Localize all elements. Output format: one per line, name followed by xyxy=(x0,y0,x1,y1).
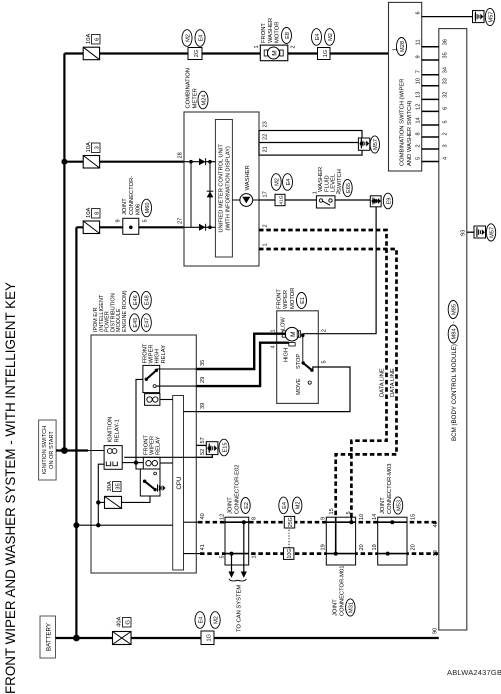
svg-text:3: 3 xyxy=(443,144,449,147)
node ign contact feed xyxy=(96,500,100,504)
wire high relay common xyxy=(136,379,143,469)
wire pin 39 internal xyxy=(184,411,197,413)
label IPDM E/R xyxy=(93,290,128,332)
svg-text:WASHER: WASHER xyxy=(245,165,251,190)
svg-text:8: 8 xyxy=(416,132,422,135)
svg-text:M2: M2 xyxy=(296,502,302,510)
joint connector M06 xyxy=(116,218,149,234)
svg-text:39: 39 xyxy=(200,403,206,409)
svg-text:E65: E65 xyxy=(346,183,352,193)
connector oval M24 xyxy=(198,91,208,109)
box CPU xyxy=(173,396,184,571)
svg-text:RELAY: RELAY xyxy=(156,436,162,455)
svg-text:36: 36 xyxy=(443,39,449,45)
svg-text:35: 35 xyxy=(200,360,206,366)
svg-text:11: 11 xyxy=(416,39,422,45)
BCM pin 40/39 labels xyxy=(433,521,439,556)
svg-text:1: 1 xyxy=(271,329,277,332)
svg-text:FLUID: FLUID xyxy=(324,175,330,192)
connector oval M2 (2G) xyxy=(182,30,192,47)
dashed CAN bus H xyxy=(198,521,439,524)
svg-text:4: 4 xyxy=(443,157,449,160)
svg-text:41G: 41G xyxy=(278,195,284,204)
wire ignition relay contact feed xyxy=(98,464,104,502)
svg-text:14: 14 xyxy=(372,514,378,520)
svg-text:E2: E2 xyxy=(244,502,250,509)
svg-text:COMBINATION SWITCH (WIPER: COMBINATION SWITCH (WIPER xyxy=(399,79,405,167)
ground E15 connector xyxy=(196,442,218,458)
wire IPDM 39 to motor pin5 xyxy=(196,367,350,412)
svg-text:20: 20 xyxy=(411,544,417,550)
watermark code xyxy=(447,668,501,677)
svg-text:40: 40 xyxy=(200,513,206,519)
svg-text:8: 8 xyxy=(95,212,101,215)
svg-text:IGNITION SWITCH: IGNITION SWITCH xyxy=(42,426,48,474)
joint connector M03 box xyxy=(378,517,407,565)
svg-text:M57: M57 xyxy=(489,227,495,238)
wire high coil to CPU xyxy=(160,399,173,401)
wire IPDM battery drop xyxy=(76,524,172,526)
svg-text:MOTOR: MOTOR xyxy=(275,22,281,43)
svg-text:33: 33 xyxy=(443,78,449,84)
svg-text:METER: METER xyxy=(192,88,198,108)
wire IPDM 29 to motor pin4 (HIGH) xyxy=(196,343,288,386)
dashed CAN meter pin2 drop xyxy=(259,230,387,517)
motor auto stop switch xyxy=(296,331,314,395)
svg-text:21: 21 xyxy=(263,146,269,152)
wire BCM pin93 ground xyxy=(467,231,475,233)
svg-text:E8: E8 xyxy=(285,32,291,39)
washer indicator symbol xyxy=(232,165,259,206)
svg-text:52: 52 xyxy=(200,449,206,455)
pin labels E02 xyxy=(220,514,258,559)
connector 10G on CAN L xyxy=(284,548,294,560)
BCM top pin labels xyxy=(443,39,449,160)
connector oval E8 xyxy=(282,28,292,44)
wire pin 41 internal xyxy=(184,553,201,555)
svg-text:9: 9 xyxy=(416,55,422,58)
connector oval E46 xyxy=(130,291,140,309)
svg-text:E4: E4 xyxy=(282,502,288,509)
label front wiper relay xyxy=(143,435,161,455)
ground M57 connector (combo) xyxy=(473,11,485,23)
label front wiper high relay xyxy=(143,343,167,363)
svg-text:12: 12 xyxy=(220,514,226,520)
front wiper motor box xyxy=(277,311,319,404)
connector 25G on CAN H xyxy=(284,516,294,528)
svg-text:CPU: CPU xyxy=(176,476,183,489)
wire coil ground to pin 52 xyxy=(124,456,196,458)
svg-text:1: 1 xyxy=(393,48,399,51)
connector oval M2 (CAN) xyxy=(293,497,302,514)
svg-text:E9: E9 xyxy=(386,198,392,205)
svg-text:BCM (BODY CONTROL MODULE): BCM (BODY CONTROL MODULE) xyxy=(451,344,458,441)
fuse 10A 3 xyxy=(64,142,184,168)
svg-text:10: 10 xyxy=(359,514,365,520)
svg-text:M85: M85 xyxy=(452,304,458,315)
svg-text:WASHER: WASHER xyxy=(268,18,274,43)
connector oval E4 (1G batt) xyxy=(195,612,205,629)
svg-text:5: 5 xyxy=(220,555,226,558)
ignition switch box xyxy=(39,420,57,480)
wire IPDM 35 to motor pin1 (LOW) xyxy=(196,334,285,369)
svg-text:CONNECTOR-M01: CONNECTOR-M01 xyxy=(339,566,345,616)
node wiper coil feed xyxy=(134,460,138,464)
svg-text:35: 35 xyxy=(116,483,122,489)
node E9 motor junction xyxy=(374,199,378,203)
node battery junction xyxy=(73,635,80,642)
svg-text:39: 39 xyxy=(433,550,439,556)
relay IGNITION RELAY-1 xyxy=(104,446,122,470)
svg-text:M31: M31 xyxy=(349,602,355,613)
wire combo pin6 ground xyxy=(422,16,474,18)
label combination meter xyxy=(186,68,199,108)
svg-text:32: 32 xyxy=(443,92,449,98)
wire 30A feed xyxy=(98,502,104,525)
pin labels M03 xyxy=(372,514,417,551)
svg-text:HIGH: HIGH xyxy=(155,349,161,364)
relay FRONT WIPER HIGH RELAY xyxy=(143,365,160,405)
svg-text:25G: 25G xyxy=(288,517,294,527)
svg-text:E48: E48 xyxy=(145,295,151,305)
fuse 10A 6 xyxy=(64,34,388,60)
connector oval M28 xyxy=(397,38,407,56)
connector oval E4 (1G washer) xyxy=(312,29,322,46)
ground E9 connector xyxy=(370,196,381,207)
svg-text:ON OR START: ON OR START xyxy=(49,431,55,469)
wire bus1 ignition horizontal xyxy=(63,54,65,451)
svg-text:E4: E4 xyxy=(198,35,204,42)
svg-text:E4: E4 xyxy=(286,179,292,186)
IPDM E/R box xyxy=(91,335,196,573)
connector oval M57 (BCM93) xyxy=(486,224,495,241)
svg-text:TO CAN SYSTEM: TO CAN SYSTEM xyxy=(236,585,242,632)
svg-text:2: 2 xyxy=(416,144,422,147)
svg-text:MOVE: MOVE xyxy=(296,378,302,395)
connector oval M53 xyxy=(393,497,402,514)
node meter 28b xyxy=(208,160,212,164)
relay FRONT WIPER RELAY xyxy=(140,457,160,496)
svg-text:M06: M06 xyxy=(136,204,142,215)
svg-text:23: 23 xyxy=(263,121,269,127)
svg-text:40A: 40A xyxy=(117,617,123,627)
ground M57 connector (shield) xyxy=(358,138,369,150)
svg-text:FRONT: FRONT xyxy=(261,23,267,43)
svg-text:STOP: STOP xyxy=(296,354,302,369)
svg-text:WIPER: WIPER xyxy=(283,290,289,309)
svg-text:9: 9 xyxy=(321,517,327,520)
combination meter box xyxy=(184,112,259,266)
svg-text:1G: 1G xyxy=(207,634,213,641)
svg-text:93: 93 xyxy=(461,230,467,236)
svg-text:22: 22 xyxy=(263,134,269,140)
connector oval M2 (1G washer) xyxy=(325,29,335,46)
svg-text:4: 4 xyxy=(271,345,277,348)
connector 1G (washer line) xyxy=(318,48,331,60)
diode on crossbar 2 xyxy=(207,191,214,197)
wire ignition switch drop xyxy=(56,449,88,451)
wire bus2 battery horizontal xyxy=(75,227,77,638)
svg-text:FRONT: FRONT xyxy=(143,343,149,363)
ground wiper relay xyxy=(158,484,166,491)
svg-text:JOINT: JOINT xyxy=(228,497,234,514)
connector oval E48 xyxy=(141,291,151,309)
svg-text:5: 5 xyxy=(322,360,328,363)
svg-text:COMBINATION: COMBINATION xyxy=(186,68,192,108)
svg-text:(WITH INFORMATION DISPLAY): (WITH INFORMATION DISPLAY) xyxy=(225,146,231,231)
diode on pin28 line xyxy=(199,158,206,165)
svg-text:10G: 10G xyxy=(287,549,293,559)
combo switch pin labels xyxy=(416,39,422,160)
svg-text:10A: 10A xyxy=(86,34,92,44)
svg-text:5: 5 xyxy=(143,219,149,222)
connector oval E65 xyxy=(343,179,352,196)
ground M57 connector (BCM93) xyxy=(474,226,486,238)
svg-text:6: 6 xyxy=(95,38,101,41)
svg-text:M53: M53 xyxy=(396,500,402,511)
svg-text:WIPER: WIPER xyxy=(150,436,156,455)
svg-text:M84: M84 xyxy=(452,329,458,340)
connector oval E47 xyxy=(141,314,151,332)
svg-text:10: 10 xyxy=(416,78,422,84)
connector oval E45 xyxy=(130,314,140,332)
connector oval E4 (4G) xyxy=(283,174,293,191)
wires combo switch to BCM rows xyxy=(422,47,439,162)
svg-text:E4: E4 xyxy=(315,34,321,41)
svg-text:HIGH: HIGH xyxy=(284,348,290,362)
wire meter pin27 internal xyxy=(184,226,215,228)
svg-text:9: 9 xyxy=(116,219,122,222)
svg-text:DATA LINE: DATA LINE xyxy=(380,368,386,397)
svg-text:M57: M57 xyxy=(488,12,494,23)
connector oval M57 (combo) xyxy=(485,8,494,25)
svg-text:UNIFIED METER CONTROL UNIT: UNIFIED METER CONTROL UNIT xyxy=(219,144,225,233)
svg-text:AND WASHER SWITCH): AND WASHER SWITCH) xyxy=(407,100,413,166)
svg-text:30A: 30A xyxy=(107,481,113,491)
svg-text:14: 14 xyxy=(416,117,422,123)
svg-text:15: 15 xyxy=(411,514,417,520)
label front wiper motor xyxy=(276,288,296,309)
svg-text:2: 2 xyxy=(263,224,269,227)
svg-text:CONNECTOR-M03: CONNECTOR-M03 xyxy=(387,464,393,514)
svg-text:2G: 2G xyxy=(194,50,200,57)
svg-text:90: 90 xyxy=(433,628,439,634)
wire meter crossbar 2 xyxy=(209,162,211,228)
svg-text:E1: E1 xyxy=(300,297,306,304)
connector oval E1 xyxy=(297,293,307,309)
svg-text:BATTERY: BATTERY xyxy=(46,623,53,651)
svg-text:JOINT: JOINT xyxy=(122,198,128,215)
label joint connector M06 text xyxy=(122,176,142,215)
wire WFL switch to E9 xyxy=(335,199,371,201)
svg-text:RELAY: RELAY xyxy=(161,345,167,364)
svg-text:2: 2 xyxy=(322,329,328,332)
svg-text:-: - xyxy=(451,321,457,323)
connector oval M31 xyxy=(346,599,355,616)
svg-text:LEVEL: LEVEL xyxy=(331,173,337,192)
fuse 40A G (fusible link) xyxy=(113,617,132,645)
wire motor pin2 to E9 ground xyxy=(303,207,376,334)
connector oval M84 xyxy=(448,325,458,343)
svg-text:1: 1 xyxy=(263,243,269,246)
label joint connector E02 xyxy=(228,465,241,515)
svg-text:G: G xyxy=(126,620,132,625)
fuse 30A 35 xyxy=(105,481,122,508)
label front washer motor xyxy=(261,18,281,43)
motor pin labels xyxy=(271,329,328,363)
wire wiper relay coil drop xyxy=(136,462,143,464)
node bus1 fuse3 tap xyxy=(61,159,67,165)
svg-text:6: 6 xyxy=(443,107,449,110)
dashed CAN meter pin1 drop xyxy=(259,249,397,517)
svg-text:M: M xyxy=(290,331,297,336)
joint connector M01 box xyxy=(326,517,355,565)
svg-text:E45: E45 xyxy=(133,318,139,328)
fuse 10A 8 xyxy=(76,208,184,234)
svg-text:M2: M2 xyxy=(214,616,220,624)
svg-text:FRONT: FRONT xyxy=(276,289,282,309)
svg-text:1G: 1G xyxy=(323,50,329,57)
svg-text:1: 1 xyxy=(252,555,258,558)
svg-text:CONNECTOR-: CONNECTOR- xyxy=(129,176,135,215)
wire battery feed vertical xyxy=(56,637,439,639)
svg-text:10A: 10A xyxy=(86,208,92,218)
motor M symbol xyxy=(281,317,299,362)
svg-text:40: 40 xyxy=(433,521,439,527)
wire meter crossbar 1 xyxy=(190,162,192,228)
svg-text:13: 13 xyxy=(416,92,422,98)
label ignition relay-1 xyxy=(108,417,121,443)
connector oval M60 xyxy=(142,199,152,217)
svg-text:19: 19 xyxy=(321,544,327,550)
joint connector E02 box xyxy=(225,517,249,565)
connector oval E4 (2G) xyxy=(195,30,205,47)
arrows to CAN system xyxy=(228,565,247,581)
node 30A feed xyxy=(96,523,100,527)
connector 2G on fuse6 line xyxy=(188,48,202,60)
battery BAT xyxy=(40,616,56,658)
svg-text:JOINT: JOINT xyxy=(333,599,339,616)
svg-text:FRONT WIPER AND WASHER SYSTEM: FRONT WIPER AND WASHER SYSTEM - WITH INT… xyxy=(3,282,18,694)
svg-text:M60: M60 xyxy=(145,203,151,214)
connector oval E4 (CAN) xyxy=(279,497,288,514)
svg-text:M28: M28 xyxy=(400,41,406,52)
label joint connector M03 xyxy=(380,464,393,514)
wire meter pin28 internal xyxy=(184,161,215,163)
wire ign relay contact out xyxy=(122,462,136,464)
connector oval M2 (4G) xyxy=(271,174,281,191)
svg-text:5: 5 xyxy=(346,511,352,514)
shield loop meter pins 23/21 xyxy=(259,131,362,156)
svg-text:M57: M57 xyxy=(373,139,379,150)
svg-text:8: 8 xyxy=(252,517,258,520)
svg-text:29: 29 xyxy=(200,377,206,383)
svg-text:34: 34 xyxy=(443,67,449,73)
connector oval E15 xyxy=(219,439,229,456)
pin labels M01 xyxy=(321,508,366,550)
svg-text:28: 28 xyxy=(178,152,184,158)
wire meter pin17 washer feed xyxy=(259,199,316,201)
wire pin 35 internal xyxy=(157,368,197,370)
label combination switch xyxy=(399,79,413,167)
svg-text:WASHER: WASHER xyxy=(318,167,324,192)
svg-text:M2: M2 xyxy=(185,34,191,42)
label washer fluid level switch xyxy=(318,167,343,192)
svg-text:1: 1 xyxy=(254,45,260,48)
node bus2 ipdm tap xyxy=(73,522,79,528)
svg-text:12: 12 xyxy=(416,104,422,110)
wire pin 40 internal xyxy=(184,521,199,523)
pin labels IPDM bottom xyxy=(200,360,206,551)
svg-text:41: 41 xyxy=(200,544,206,550)
svg-text:FRONT: FRONT xyxy=(143,435,149,455)
svg-text:2: 2 xyxy=(443,132,449,135)
svg-text:M: M xyxy=(271,50,278,55)
meter bottom pin labels xyxy=(263,121,269,246)
combination switch box xyxy=(389,2,422,171)
svg-text:15: 15 xyxy=(329,508,335,514)
washer fluid level switch xyxy=(313,191,343,208)
svg-text:5: 5 xyxy=(416,157,422,160)
svg-text:17: 17 xyxy=(263,191,269,197)
svg-text:2: 2 xyxy=(291,45,297,48)
svg-text:ENGINE ROOM): ENGINE ROOM) xyxy=(122,290,128,332)
svg-text:19: 19 xyxy=(372,544,378,550)
node bus1 ignition joint xyxy=(61,447,68,454)
svg-text:M24: M24 xyxy=(201,95,207,106)
svg-text:JOINT: JOINT xyxy=(380,497,386,514)
connector oval E2 xyxy=(241,498,250,514)
svg-text:5: 5 xyxy=(443,120,449,123)
svg-text:3: 3 xyxy=(95,146,101,149)
svg-text:IGNITION: IGNITION xyxy=(108,417,114,443)
svg-text:E15: E15 xyxy=(222,443,228,453)
svg-text:LOW: LOW xyxy=(281,317,287,330)
label joint connector M01 xyxy=(333,566,346,616)
wire pin 29 internal xyxy=(156,385,196,387)
connector 1G (battery line) xyxy=(201,631,214,645)
svg-text:E4: E4 xyxy=(198,617,204,624)
svg-text:57: 57 xyxy=(200,437,206,443)
box unified meter control unit xyxy=(215,120,232,258)
svg-text:M2: M2 xyxy=(328,33,334,41)
svg-text:6: 6 xyxy=(416,11,422,14)
svg-text:7: 7 xyxy=(416,70,422,73)
BCM box xyxy=(439,29,467,630)
svg-text:CONNECTOR-E02: CONNECTOR-E02 xyxy=(234,465,240,515)
svg-text:27: 27 xyxy=(178,218,184,224)
wire 30A to wiper relay contact xyxy=(122,496,151,502)
front washer motor FWM xyxy=(254,45,297,61)
node meter 27b xyxy=(208,225,212,229)
svg-text:20: 20 xyxy=(359,544,365,550)
svg-text:E46: E46 xyxy=(133,295,139,305)
svg-text:E47: E47 xyxy=(145,318,151,328)
svg-text:SWITCH: SWITCH xyxy=(337,169,343,192)
wire wiper coil to CPU xyxy=(160,462,173,464)
dotted link 25G-10G xyxy=(288,528,290,548)
svg-text:RELAY-1: RELAY-1 xyxy=(114,419,120,442)
svg-text:M2: M2 xyxy=(275,178,281,186)
connector oval E9 xyxy=(383,193,392,209)
svg-text:WIPER: WIPER xyxy=(149,344,155,363)
node meter 28a xyxy=(189,160,193,164)
dashed CAN bus L xyxy=(200,552,439,555)
svg-text:MOTOR: MOTOR xyxy=(290,288,296,309)
svg-text:10A: 10A xyxy=(86,142,92,152)
svg-text:35: 35 xyxy=(443,52,449,58)
connector oval M85 xyxy=(448,301,458,319)
